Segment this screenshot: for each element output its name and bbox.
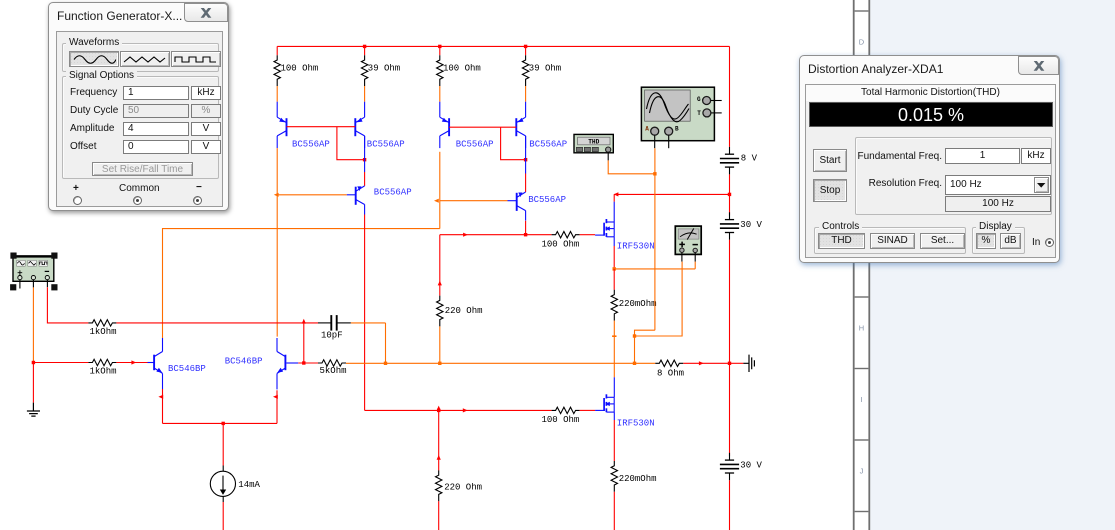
svg-text:D: D bbox=[859, 38, 865, 47]
battery V2 30V (upper) bbox=[720, 212, 739, 240]
svg-text:J: J bbox=[860, 467, 864, 476]
wire red stub above R1 bbox=[276, 46, 278, 55]
label C1 value bbox=[321, 331, 343, 341]
transistor T4 BC556AP (row1 right-pair B) bbox=[516, 102, 525, 148]
battery V1 8V bbox=[720, 147, 739, 175]
wire R10 bottom red to edge bbox=[438, 501, 440, 530]
wire R5 to cap node bbox=[116, 322, 318, 324]
resistor R10 220 Ohm (lower) bbox=[436, 470, 442, 501]
junction multimeter tap bbox=[633, 334, 636, 337]
transistor T3 BC556AP (row1 right-pair A) bbox=[440, 102, 449, 148]
junction arrow lower gate line bbox=[463, 408, 468, 412]
current source I1 14mA bbox=[210, 466, 235, 503]
resistor R7 100 Ohm (upper gate) bbox=[552, 232, 580, 238]
wire Q5 base blue stub bbox=[347, 194, 356, 196]
wire source sense to multimeter bbox=[614, 268, 695, 270]
junction tie on T2 collector bbox=[363, 158, 366, 161]
wire M1 source to R13 bbox=[613, 269, 615, 290]
wire orange stub below R1 bbox=[276, 86, 278, 102]
wire T1 collector orange vertical to Q2 collector bbox=[276, 148, 278, 337]
wire Q1 base blue stub bbox=[148, 362, 155, 364]
label Q1 BC546BP bbox=[168, 364, 206, 374]
instrument panel: Distortion Analyzer window bbox=[799, 55, 1060, 263]
wire Q5 collector vertical bbox=[364, 215, 366, 411]
wire mirror tie left drop bbox=[337, 127, 365, 160]
svg-text:1kOhm: 1kOhm bbox=[90, 366, 117, 376]
svg-text:100 Ohm: 100 Ohm bbox=[542, 239, 580, 249]
wire red stub above R2 bbox=[364, 46, 366, 55]
svg-text:1kOhm: 1kOhm bbox=[90, 327, 117, 337]
wire scope G stub bbox=[711, 100, 722, 102]
wire to ground right bbox=[730, 362, 744, 364]
resistor R14 220mOhm (lower) bbox=[611, 461, 617, 492]
svg-text:100 Ohm: 100 Ohm bbox=[542, 415, 580, 425]
distortion analyzer probe icon XDA1 bbox=[574, 134, 613, 152]
svg-text:30 V: 30 V bbox=[740, 461, 762, 471]
wire mirror tie right drop bbox=[501, 127, 526, 160]
junction arrow Q1 emitter bbox=[158, 395, 163, 399]
wire Q1-collector cross link bbox=[163, 229, 440, 338]
wire tail line bbox=[163, 422, 278, 424]
svg-text:220mOhm: 220mOhm bbox=[619, 299, 657, 309]
junction tie on T4 collector bbox=[524, 158, 527, 161]
wire T2 collector stub blue bbox=[364, 136, 366, 172]
svg-text:39 Ohm: 39 Ohm bbox=[529, 63, 561, 73]
label Q5 BC556AP bbox=[374, 188, 412, 198]
svg-text:BC556AP: BC556AP bbox=[367, 140, 405, 150]
label R10 value bbox=[444, 482, 482, 492]
wire R12 to supply mid bbox=[683, 362, 729, 364]
label R1 value bbox=[281, 63, 319, 73]
junction R9-output bbox=[438, 362, 441, 365]
label Q6 BC556AP bbox=[528, 195, 566, 205]
wire XFG + stub bbox=[19, 280, 21, 289]
label R11 value bbox=[320, 366, 347, 376]
wire cap branch vertical bbox=[303, 322, 305, 363]
label M2 IRF530N bbox=[617, 419, 655, 429]
svg-text:BC556AP: BC556AP bbox=[529, 140, 567, 150]
resistor R6 1kOhm (lower input) bbox=[88, 359, 116, 365]
wire cap to feedback corner orange bbox=[351, 322, 386, 324]
resistor R13 220mOhm (upper) bbox=[611, 290, 617, 321]
junction tail-source bbox=[222, 422, 225, 425]
wire Q2 base red to 5k bbox=[298, 362, 318, 364]
svg-text:100 Ohm: 100 Ohm bbox=[281, 63, 319, 73]
wire Q6 collector vertical bbox=[525, 221, 527, 235]
wire M1 source blue bbox=[613, 237, 615, 246]
junction arrow above R9 bbox=[438, 281, 442, 286]
transistor T1 BC556AP (row1 left-pair A) bbox=[277, 102, 286, 148]
label R14 value bbox=[619, 474, 657, 484]
wire R6 to Q1 base red bbox=[116, 362, 147, 364]
svg-text:10pF: 10pF bbox=[321, 331, 343, 341]
svg-text:39 Ohm: 39 Ohm bbox=[368, 63, 400, 73]
label R8 value bbox=[542, 415, 580, 425]
wire R13 bottom orange to output node bbox=[613, 321, 615, 378]
wire Q2 base blue stub bbox=[286, 362, 298, 364]
label R7 value bbox=[542, 239, 580, 249]
svg-text:THD: THD bbox=[588, 139, 599, 146]
wire THD stub black bbox=[607, 152, 609, 160]
resistor R1 100 Ohm bbox=[274, 55, 280, 86]
wire below current source bbox=[222, 502, 224, 530]
junction output-sense bbox=[633, 362, 636, 365]
wire scope A jog bbox=[635, 330, 655, 363]
resistor R2 39 Ohm bbox=[361, 55, 367, 86]
junction arrow VAS-right node bbox=[434, 199, 439, 203]
wire multimeter + orange bbox=[635, 262, 683, 336]
wire lower input line bbox=[33, 362, 88, 364]
svg-text:30 V: 30 V bbox=[740, 220, 762, 230]
label R4 value bbox=[529, 63, 561, 73]
wire R14 bottom red to edge bbox=[613, 492, 615, 530]
junction arrow above R10 bbox=[437, 455, 441, 460]
junction arrow lower-gate up bbox=[437, 406, 441, 411]
label T1 BC556AP bbox=[292, 140, 330, 150]
junction lower-gate 220ohm tap bbox=[437, 409, 440, 412]
wire T4 collector stub blue bbox=[525, 136, 527, 174]
capacitor C1 10pF bbox=[318, 315, 351, 331]
transistor M1 IRF530N (upper) bbox=[595, 219, 614, 237]
label V3 value bbox=[740, 461, 762, 471]
junction Q6-coll on gate line bbox=[524, 233, 527, 236]
svg-text:BC556AP: BC556AP bbox=[456, 140, 494, 150]
wire XFG common orange drop bbox=[32, 287, 34, 362]
junction rail-R3 bbox=[438, 45, 441, 48]
wire red stub above R4 bbox=[525, 46, 527, 55]
wire T1-T2 base link bbox=[287, 126, 356, 128]
svg-text:BC556AP: BC556AP bbox=[374, 188, 412, 198]
resistor R5 1kOhm (upper input) bbox=[88, 320, 116, 326]
label M1 IRF530N bbox=[617, 241, 655, 251]
junction THD tap bbox=[653, 172, 656, 175]
wire ground drop left bbox=[32, 363, 34, 403]
wire M1 drain blue bbox=[613, 202, 615, 222]
svg-text:220 Ohm: 220 Ohm bbox=[444, 482, 482, 492]
svg-text:I: I bbox=[860, 395, 862, 404]
junction cap-branch on base line bbox=[302, 361, 305, 364]
wire M2 source red bbox=[613, 420, 615, 461]
junction M1 source sense bbox=[613, 267, 616, 270]
svg-text:T: T bbox=[697, 110, 701, 117]
resistor R11 5kOhm (feedback) bbox=[318, 360, 346, 366]
wire scope T stub bbox=[711, 112, 722, 114]
label R2 value bbox=[368, 63, 400, 73]
svg-text:220mOhm: 220mOhm bbox=[619, 474, 657, 484]
wire upper gate corner drop bbox=[439, 235, 441, 296]
svg-text:H: H bbox=[859, 324, 864, 333]
junction arrow upper gate line bbox=[463, 233, 468, 237]
wire scope A orange drop bbox=[654, 148, 656, 330]
wire node branch to Q6 base bbox=[440, 200, 508, 202]
wire THD orange to scope line bbox=[608, 160, 655, 173]
label R3 value bbox=[443, 63, 481, 73]
label R6 value bbox=[90, 366, 117, 376]
battery V3 30V (lower) bbox=[720, 453, 739, 481]
function generator instrument icon XFG bbox=[13, 255, 54, 281]
wire lower gate line horizontal bbox=[365, 409, 552, 411]
wire feedback corner drop bbox=[385, 323, 387, 363]
wire R9 bottom orange to output bbox=[439, 326, 441, 363]
wire +rail right drop to V1 bbox=[729, 46, 731, 146]
svg-text:8 Ohm: 8 Ohm bbox=[657, 368, 684, 378]
label R12 value bbox=[657, 368, 684, 378]
junction arrow Q1 base wire bbox=[131, 360, 136, 364]
svg-text:G: G bbox=[697, 96, 701, 103]
junction arrow output right bbox=[699, 361, 704, 365]
wire Q1 emitter red drop bbox=[162, 389, 164, 423]
svg-text:BC556AP: BC556AP bbox=[292, 140, 330, 150]
label R9 value bbox=[445, 306, 483, 316]
wire orange stub below R2 bbox=[364, 86, 366, 102]
wire XFG common stub bbox=[32, 280, 34, 288]
svg-text:B: B bbox=[675, 126, 679, 133]
svg-text:8 V: 8 V bbox=[741, 154, 758, 164]
ground GND2 (right, rotated) bbox=[743, 355, 754, 372]
junction mid supply battery bbox=[728, 193, 731, 196]
junction feedback-output bbox=[384, 362, 387, 365]
wire multimeter + black bbox=[681, 253, 683, 262]
wire M2 source blue bbox=[613, 412, 615, 420]
oscilloscope instrument icon XSC1 bbox=[641, 87, 714, 141]
svg-text:IRF530N: IRF530N bbox=[617, 419, 655, 429]
wire T3-T4 base link bbox=[449, 126, 516, 128]
wire T3 collector orange vertical bbox=[439, 152, 441, 229]
transistor M2 IRF530N (lower) bbox=[595, 394, 614, 412]
resistor R3 100 Ohm bbox=[437, 55, 443, 86]
resistor R9 220 Ohm (upper) bbox=[437, 296, 443, 327]
wire R8 to lower MOSFET gate bbox=[580, 409, 596, 411]
svg-text:A: A bbox=[645, 126, 649, 133]
wire upper gate line horizontal bbox=[440, 234, 552, 236]
label R5 value bbox=[90, 327, 117, 337]
label V1 value bbox=[741, 154, 758, 164]
wire V3 to edge bbox=[729, 480, 731, 530]
wire to current source bbox=[222, 423, 224, 465]
wire V1 to V2 bbox=[729, 174, 731, 215]
wire V2 to output junction bbox=[729, 240, 731, 363]
selection handles of XFG icon bbox=[10, 253, 57, 291]
wire red above R10 bbox=[438, 410, 440, 470]
wire node branch to Q5 base bbox=[277, 194, 347, 196]
wire M1 drain red to +rail2 bbox=[613, 194, 615, 201]
svg-text:100 Ohm: 100 Ohm bbox=[443, 63, 481, 73]
junction tick R13-net bbox=[612, 335, 616, 337]
wire multimeter - orange bbox=[694, 262, 696, 269]
transistor Q5 BC556AP (driver left) bbox=[356, 172, 365, 215]
wire M1 source red bbox=[613, 246, 615, 269]
wire +rail top horizontal bbox=[277, 45, 729, 47]
label R13 value bbox=[619, 299, 657, 309]
svg-text:5kOhm: 5kOhm bbox=[320, 366, 347, 376]
svg-text:220 Ohm: 220 Ohm bbox=[445, 306, 483, 316]
transistor T2 BC556AP (row1 left-pair B) bbox=[355, 102, 364, 148]
junction output-supply bbox=[728, 362, 731, 365]
wire red stub above R3 bbox=[439, 46, 441, 55]
sheet border with zone letters bbox=[854, 0, 1115, 530]
junction rail-R2 bbox=[363, 45, 366, 48]
wire multimeter - black bbox=[694, 253, 696, 262]
junction rail-R4 bbox=[524, 45, 527, 48]
label I1 value bbox=[238, 480, 260, 490]
wire scope B stub bbox=[668, 136, 670, 149]
wire XFG minus red drop bbox=[47, 287, 88, 323]
transistor Q1 BC546BP (diff left) bbox=[154, 338, 162, 389]
svg-text:14mA: 14mA bbox=[238, 480, 260, 490]
transistor Q6 BC556AP (driver right) bbox=[517, 174, 526, 221]
wire output junction to V3 bbox=[729, 363, 731, 456]
junction arrow Q2 emitter bbox=[273, 395, 278, 399]
wire Q6 base blue stub bbox=[508, 200, 517, 202]
wire Q2 emitter red drop bbox=[276, 390, 278, 423]
wire scope A black bbox=[654, 136, 656, 149]
junction arrow mid supply left end bbox=[614, 192, 619, 196]
svg-text:BC556AP: BC556AP bbox=[528, 195, 566, 205]
resistor R4 39 Ohm bbox=[522, 55, 528, 86]
resistor R12 8 Ohm (load) bbox=[655, 360, 683, 366]
wire 5k to output line orange bbox=[346, 362, 655, 364]
transistor Q2 BC546BP (diff right) bbox=[277, 338, 285, 389]
wire mid supply line bbox=[614, 193, 729, 195]
svg-text:BC546BP: BC546BP bbox=[168, 364, 206, 374]
wire M2 drain blue bbox=[613, 377, 615, 397]
label T2 BC556AP bbox=[367, 140, 405, 150]
junction arrow cap branch top bbox=[302, 319, 306, 324]
resistor R8 100 Ohm (lower gate) bbox=[552, 407, 580, 413]
multimeter instrument icon XMM1 bbox=[675, 226, 701, 254]
svg-text:BC546BP: BC546BP bbox=[225, 357, 263, 367]
label V2 value bbox=[740, 220, 762, 230]
instrument panel: Function Generator window bbox=[48, 2, 229, 211]
svg-text:IRF530N: IRF530N bbox=[617, 241, 655, 251]
wire R7 to upper MOSFET gate bbox=[580, 234, 596, 236]
junction arrow VAS-left node bbox=[274, 193, 279, 197]
wire orange stub below R4 bbox=[525, 86, 527, 102]
junction XFG common node bbox=[32, 361, 35, 364]
wire orange stub below R3 bbox=[439, 86, 441, 102]
wire XFG minus stub bbox=[46, 280, 48, 288]
label T3 BC556AP bbox=[456, 140, 494, 150]
label Q2 BC546BP bbox=[225, 357, 263, 367]
ground GND1 (left) bbox=[27, 403, 40, 417]
label T4 BC556AP bbox=[529, 140, 567, 150]
